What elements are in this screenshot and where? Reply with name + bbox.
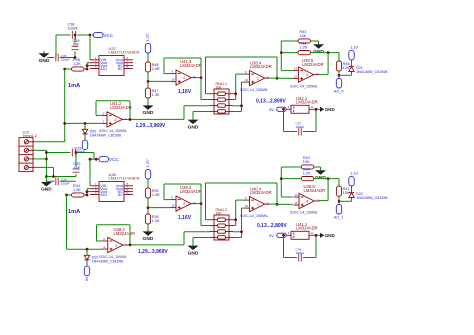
- svg-text:LM324ADR: LM324ADR: [180, 63, 202, 68]
- label U41.2: [110, 101, 132, 110]
- svg-text:LM317LD-SO8-R: LM317LD-SO8-R: [109, 50, 140, 55]
- wire D22 to 1V1: [351, 186, 353, 192]
- wire R36 to gnd: [147, 224, 149, 229]
- junction pin2/pin3: [45, 158, 48, 161]
- wire U40.4 out to U40.5: [270, 203, 293, 205]
- ground GND (connector): [41, 182, 52, 193]
- power flag VCC: [92, 32, 114, 37]
- svg-text:5V: 5V: [269, 233, 274, 238]
- junction ref node: [147, 80, 150, 83]
- wire R46 rail: [65, 68, 87, 70]
- junction R44/out: [327, 51, 330, 54]
- label 5V (D19): [85, 276, 89, 281]
- junction U40.4 out: [276, 203, 279, 206]
- wire RN row1 to minus bottom: [233, 200, 244, 225]
- wire 5V to pin4: [285, 108, 287, 110]
- wire 1V1 to R35: [147, 179, 149, 188]
- svg-text:10K: 10K: [300, 34, 307, 38]
- wire U39.2 feedback: [97, 225, 131, 245]
- net flag 5V (U42.1): [277, 107, 286, 111]
- junction R34 right: [86, 194, 89, 197]
- capacitor C37 100nF: [296, 121, 305, 135]
- ground GND (current source): [39, 51, 50, 64]
- svg-text:13: 13: [294, 193, 298, 197]
- wire U41.3 feedback: [164, 58, 201, 100]
- svg-text:1uF: 1uF: [74, 166, 81, 170]
- svg-text:10: 10: [171, 78, 175, 82]
- label AO_0: [334, 89, 344, 93]
- svg-text:1,16V: 1,16V: [178, 215, 192, 221]
- resistor R40 1.2K: [301, 168, 314, 181]
- junction D19 tap: [86, 248, 89, 251]
- wire RN gnd leg: [193, 112, 210, 120]
- net flag 5V (D19): [84, 266, 89, 276]
- wire C32 branch: [75, 153, 77, 177]
- diode D21 1N4148W: [349, 66, 388, 74]
- svg-text:1,16V: 1,16V: [178, 89, 192, 95]
- label 1,1V (D21): [350, 45, 359, 50]
- svg-text:SOIC-14_150MIL: SOIC-14_150MIL: [99, 129, 127, 133]
- svg-text:1,29...3,969V: 1,29...3,969V: [138, 249, 168, 255]
- junction R40/out: [327, 177, 330, 180]
- regulator U37 LM317LD-SO8-R: [90, 46, 140, 76]
- label SOIC-14 U41: [99, 129, 127, 133]
- svg-text:GND: GND: [325, 107, 335, 112]
- wire AO node to D21: [339, 71, 352, 75]
- svg-text:ADJ: ADJ: [100, 67, 107, 71]
- svg-text:LM324ADR: LM324ADR: [250, 190, 272, 195]
- junction pin4/loop bottom: [282, 234, 285, 237]
- junction Vout pins: [86, 64, 89, 67]
- svg-text:LM324ADR: LM324ADR: [114, 231, 136, 236]
- label 1,16V (top): [178, 89, 192, 95]
- wire R48 to node: [147, 72, 149, 88]
- junction minus node bottom: [234, 218, 237, 221]
- junction minus node: [234, 92, 237, 95]
- svg-text:10: 10: [245, 204, 249, 208]
- svg-text:LM324ADR: LM324ADR: [302, 62, 324, 67]
- resistor R48 2.4R: [145, 62, 159, 72]
- wire C34 loop: [284, 235, 321, 257]
- wire D20 drop: [84, 123, 86, 140]
- svg-text:1mA: 1mA: [68, 209, 80, 215]
- wire U41.3 out to RN: [191, 78, 210, 100]
- svg-text:GND: GND: [188, 124, 199, 130]
- wire X12 pin3: [34, 158, 46, 160]
- junction VIN drop: [89, 158, 92, 161]
- op-amp power U42.1: [287, 96, 318, 113]
- wire VCC rail bottom: [46, 153, 97, 160]
- junction AO_0 node: [338, 74, 341, 77]
- junction output/feedback: [129, 118, 132, 121]
- label 1mA: [68, 83, 80, 89]
- diode D22 1N4148W: [349, 192, 388, 200]
- label 0,13...2,809V (bottom): [257, 223, 287, 229]
- svg-text:100nF: 100nF: [296, 251, 305, 255]
- capacitor C38 100nF: [68, 23, 79, 39]
- op-amp U39.2 LM324ADR: [102, 237, 128, 253]
- ground GND (R42): [315, 170, 326, 181]
- capacitor C33 100nF: [72, 146, 86, 156]
- label 5V (U41.1): [269, 233, 274, 238]
- label 1,1V (top left): [145, 33, 150, 42]
- label AO_1: [334, 215, 344, 219]
- resistor R34 1.2K: [72, 184, 85, 197]
- wire U41.2 plus input: [65, 122, 102, 124]
- wire minus leg bottom: [281, 167, 293, 197]
- wire U39.3 feedback: [164, 184, 201, 226]
- ground GND (RN bottom): [188, 245, 199, 256]
- supply flag 1,1V (R48): [145, 44, 150, 54]
- svg-text:GND: GND: [325, 233, 335, 238]
- svg-text:1.2K: 1.2K: [300, 45, 308, 49]
- supply flag 1,1V (D22): [349, 176, 354, 186]
- junction C39 top: [74, 34, 77, 37]
- wire U38.4 out to U38.5: [270, 77, 293, 79]
- svg-text:LM317LD-SO8-R: LM317LD-SO8-R: [109, 176, 140, 181]
- ground GND (U42.1): [320, 107, 335, 112]
- svg-text:14: 14: [316, 72, 320, 76]
- wire R40 rail: [281, 179, 339, 187]
- svg-text:1,29...3,969V: 1,29...3,969V: [136, 123, 166, 129]
- resistor R44 1.2K: [298, 42, 311, 55]
- net flag 5V (U41.1): [277, 233, 286, 237]
- svg-text:SOIC-14_150MIL: SOIC-14_150MIL: [240, 88, 268, 92]
- junction C32 top: [75, 151, 78, 154]
- wire Vout join: [87, 63, 90, 69]
- wire U38.5 out up: [319, 53, 328, 75]
- junction VCC rail: [89, 34, 92, 37]
- junction U39.3 out: [200, 202, 203, 205]
- junction pin4 joins: [52, 175, 55, 178]
- svg-text:VCC: VCC: [104, 33, 114, 38]
- svg-text:0,13...2,809V: 0,13...2,809V: [257, 223, 287, 229]
- junction ref node bottom: [147, 206, 150, 209]
- wire U41.2 feedback: [96, 101, 130, 120]
- wire ref to plus bottom: [148, 207, 170, 209]
- svg-text:0,13...2,809V: 0,13...2,809V: [256, 99, 286, 105]
- label U39.2: [114, 227, 136, 236]
- junction pin2 rail: [45, 175, 48, 178]
- svg-text:Temp1-2: Temp1-2: [23, 134, 37, 138]
- label 1,29...3,969V (bottom): [138, 249, 168, 255]
- svg-text:AO_0: AO_0: [334, 89, 344, 93]
- svg-text:GND: GND: [188, 250, 199, 256]
- net flag 5V (D20): [82, 140, 87, 150]
- label U38.4: [250, 61, 272, 70]
- svg-text:AO_1: AO_1: [334, 215, 344, 219]
- op-amp power U41.1: [287, 222, 318, 239]
- wire VIN drop bottom: [89, 159, 91, 186]
- svg-text:2.4R: 2.4R: [152, 67, 160, 71]
- wire R41 to AO: [338, 196, 340, 204]
- diode D19 1N4148W: [84, 255, 123, 263]
- wire U39.3 out to RN: [191, 204, 210, 226]
- junction C39 bottom: [74, 56, 77, 59]
- wire 1mA sense drop bottom: [67, 195, 103, 249]
- junction rail/pin2: [45, 151, 48, 154]
- label U39.5: [304, 184, 326, 193]
- svg-text:LM324ADR: LM324ADR: [304, 188, 326, 193]
- junction U38.4 out: [276, 77, 279, 80]
- resistor R35 2.4R: [145, 188, 159, 198]
- svg-text:10K: 10K: [343, 66, 350, 70]
- svg-text:220pF: 220pF: [61, 58, 70, 62]
- junction pin4/loop: [282, 108, 285, 111]
- junction R34 left: [65, 194, 68, 197]
- junction pin11/loop bottom: [315, 234, 318, 237]
- svg-text:1N4148W_C81598: 1N4148W_C81598: [92, 260, 123, 264]
- op-amp U41.2 LM324ADR: [101, 112, 127, 128]
- wire GND rail: [47, 57, 75, 59]
- svg-text:1.2K: 1.2K: [73, 188, 81, 192]
- op-amp U40.4 LM324ADR: [244, 196, 270, 212]
- svg-text:LM324ADR: LM324ADR: [110, 105, 132, 110]
- junction D20 tap: [84, 122, 87, 125]
- wire U39.2 output: [128, 232, 210, 245]
- wire X12 pin1: [34, 141, 65, 143]
- junction R46 left: [63, 68, 66, 71]
- junction R40/minus: [280, 177, 283, 180]
- svg-text:LM324ADR: LM324ADR: [296, 226, 318, 231]
- wire U41.2 output: [127, 106, 210, 120]
- junction AO_1 node: [338, 200, 341, 203]
- svg-text:ADJ: ADJ: [100, 193, 107, 197]
- junction plus node bottom: [240, 230, 243, 233]
- ground GND (R43): [313, 44, 324, 55]
- svg-text:1N4148W_C81598: 1N4148W_C81598: [356, 196, 387, 200]
- svg-text:GND: GND: [41, 187, 52, 193]
- svg-text:GND: GND: [143, 236, 154, 242]
- svg-text:SOIC-14_150MIL: SOIC-14_150MIL: [290, 210, 318, 214]
- label SOIC-14 U39.2: [99, 255, 127, 259]
- svg-text:10: 10: [245, 78, 249, 82]
- capacitor C39 1uF: [72, 39, 80, 50]
- junction R46 right: [86, 68, 89, 71]
- wire R35 to node: [147, 198, 149, 214]
- wire U40.5 out up: [319, 179, 328, 201]
- op-amp U39.5 LM324ADR: [293, 193, 320, 209]
- wire VCC rail top: [56, 34, 90, 36]
- wire R44 rail: [281, 53, 339, 61]
- svg-text:12: 12: [294, 75, 298, 79]
- resistor R47 1.3K: [145, 88, 159, 98]
- svg-text:1,1V: 1,1V: [350, 45, 359, 50]
- svg-text:1.2K: 1.2K: [303, 171, 311, 175]
- svg-text:SOIC-14_150MIL: SOIC-14_150MIL: [290, 84, 318, 88]
- label U38.5: [302, 58, 324, 67]
- svg-text:LM324ADR: LM324ADR: [296, 100, 318, 105]
- junction output/feedback bottom: [129, 244, 132, 247]
- capacitor C36 220pF: [56, 54, 70, 62]
- regulator U36 LM317LD-SO8-R: [90, 172, 140, 202]
- wire GND rail bottom: [46, 180, 76, 182]
- svg-text:12: 12: [294, 201, 298, 205]
- ground GND (U41.1): [320, 233, 335, 238]
- label 5V (U42.1): [269, 107, 274, 112]
- label 1,1V (D22): [350, 171, 359, 176]
- label SOIC-14 U40.4: [240, 214, 268, 218]
- svg-text:10K: 10K: [303, 160, 310, 164]
- wire R42 rail: [281, 167, 320, 170]
- svg-text:NC: NC: [118, 67, 124, 71]
- wire rail-left drop: [55, 35, 57, 58]
- label U41.3: [180, 59, 202, 68]
- connector X12 Temp1-2: [19, 130, 37, 171]
- label 1,29...3,969V (top): [136, 123, 166, 129]
- wire R45 to AO: [338, 71, 340, 79]
- junction plus node: [240, 104, 243, 107]
- supply flag 1,1V (D21): [349, 50, 354, 60]
- svg-text:220pF: 220pF: [61, 181, 70, 185]
- label 0,13...2,809V (top): [256, 99, 286, 105]
- capacitor C32 1uF: [73, 162, 81, 172]
- svg-text:GND: GND: [143, 110, 154, 116]
- svg-text:GND: GND: [39, 58, 50, 64]
- resistor R45 10K: [336, 61, 349, 71]
- svg-text:SOIC-14_150MIL: SOIC-14_150MIL: [240, 214, 268, 218]
- op-amp U38.5 LM324ADR: [293, 67, 320, 83]
- svg-text:LM324ADR: LM324ADR: [250, 64, 272, 69]
- ground GND (R47): [143, 103, 154, 116]
- junction U41.3 out: [200, 76, 203, 79]
- resistor network RN41.2 10K: [210, 208, 233, 240]
- label U40.4: [250, 187, 272, 196]
- label SOIC-14 U40.5: [290, 210, 318, 214]
- label 1mA (bottom): [68, 209, 80, 215]
- svg-text:1,1V: 1,1V: [145, 159, 150, 168]
- wire C39 branch: [74, 35, 76, 58]
- junction Vout pins bottom: [86, 190, 89, 193]
- svg-text:2.4R: 2.4R: [152, 193, 160, 197]
- wire 5V to pin4 bottom: [285, 234, 287, 236]
- svg-text:13: 13: [294, 67, 298, 71]
- wire Vout join bottom: [87, 189, 90, 195]
- svg-text:10K: 10K: [343, 191, 350, 195]
- resistor R36 1.3K: [145, 214, 159, 224]
- svg-text:LM324ADR: LM324ADR: [180, 189, 202, 194]
- label 1,16V (bottom): [178, 215, 192, 221]
- svg-text:1N4148W_C81598: 1N4148W_C81598: [90, 134, 121, 138]
- svg-text:1,1V: 1,1V: [145, 33, 150, 42]
- resistor R41 10K: [336, 186, 349, 196]
- wire feedback long (U40.4): [206, 183, 278, 220]
- wire C37 loop: [284, 109, 321, 131]
- wire AO node to D22: [339, 197, 352, 201]
- wire 1V1 to R48: [147, 53, 149, 62]
- net flag AO_1: [336, 205, 341, 215]
- label U39.3: [180, 185, 202, 194]
- svg-text:SOIC-14_150MIL: SOIC-14_150MIL: [99, 255, 127, 259]
- wire D19 drop: [86, 249, 88, 266]
- svg-text:1,1V: 1,1V: [350, 171, 359, 176]
- svg-text:1mA: 1mA: [68, 83, 80, 89]
- wire VIN drop: [89, 35, 91, 60]
- diode D20 1N4148W: [82, 129, 121, 137]
- wire RN gnd leg bottom: [193, 238, 210, 246]
- svg-text:1.3K: 1.3K: [152, 219, 160, 223]
- wire ref to plus: [148, 80, 170, 82]
- resistor R42 10K: [301, 156, 314, 169]
- svg-text:1N4148W_C81598: 1N4148W_C81598: [356, 70, 387, 74]
- svg-text:GND: GND: [313, 49, 324, 55]
- capacitor C35 220pF: [56, 177, 70, 185]
- wire RN row3 to plus: [233, 82, 244, 111]
- capacitor C34 100nF: [296, 247, 305, 261]
- wire D21 to 1V1: [351, 60, 353, 66]
- svg-text:VCC: VCC: [109, 157, 119, 162]
- svg-text:NC: NC: [118, 193, 124, 197]
- svg-text:100nF: 100nF: [68, 27, 79, 31]
- label 1,1V (bottom left): [145, 159, 150, 168]
- junction R44/minus: [280, 51, 283, 54]
- op-amp U39.3 LM324ADR: [170, 196, 196, 212]
- label SOIC-14 U38.4: [240, 88, 268, 92]
- wire R43 rail: [281, 41, 318, 44]
- power flag VCC (bottom): [98, 157, 120, 162]
- net flag AO_0: [336, 79, 341, 89]
- wire X12 pin2: [34, 150, 46, 182]
- svg-text:1uF: 1uF: [73, 43, 80, 47]
- ground GND (RN top): [188, 119, 199, 130]
- op-amp U41.3 LM324ADR: [170, 70, 196, 86]
- wire R34 rail: [67, 194, 88, 196]
- label SOIC-14 U38.5: [290, 84, 318, 88]
- svg-text:1.3K: 1.3K: [152, 93, 160, 97]
- wire RN row1 to minus: [233, 74, 244, 99]
- svg-text:10: 10: [171, 204, 175, 208]
- junction pin11/loop: [315, 108, 318, 111]
- supply flag 1,1V (R35): [145, 170, 150, 180]
- svg-text:5V: 5V: [85, 276, 89, 281]
- junction plus input tap: [63, 122, 66, 125]
- svg-text:1.2K: 1.2K: [73, 62, 81, 66]
- svg-text:5V: 5V: [269, 107, 274, 112]
- wire feedback long (U38.4): [206, 57, 278, 94]
- resistor network RN41.1 10K: [210, 82, 233, 114]
- resistor R46 1.2K: [72, 58, 85, 71]
- ground GND (R36): [143, 229, 154, 242]
- wire R47 to gnd: [147, 98, 149, 103]
- resistor R43 10K: [298, 30, 311, 43]
- wire minus leg: [281, 41, 293, 71]
- svg-text:100nF: 100nF: [296, 125, 305, 129]
- op-amp U38.4 LM324ADR: [244, 70, 270, 86]
- wire RN row3 to plus bottom: [233, 208, 244, 237]
- wire 1mA sense drop: [64, 69, 66, 142]
- wire X12 pin4: [34, 167, 76, 176]
- junction VCC bottom: [95, 158, 98, 161]
- svg-text:GND: GND: [315, 175, 326, 181]
